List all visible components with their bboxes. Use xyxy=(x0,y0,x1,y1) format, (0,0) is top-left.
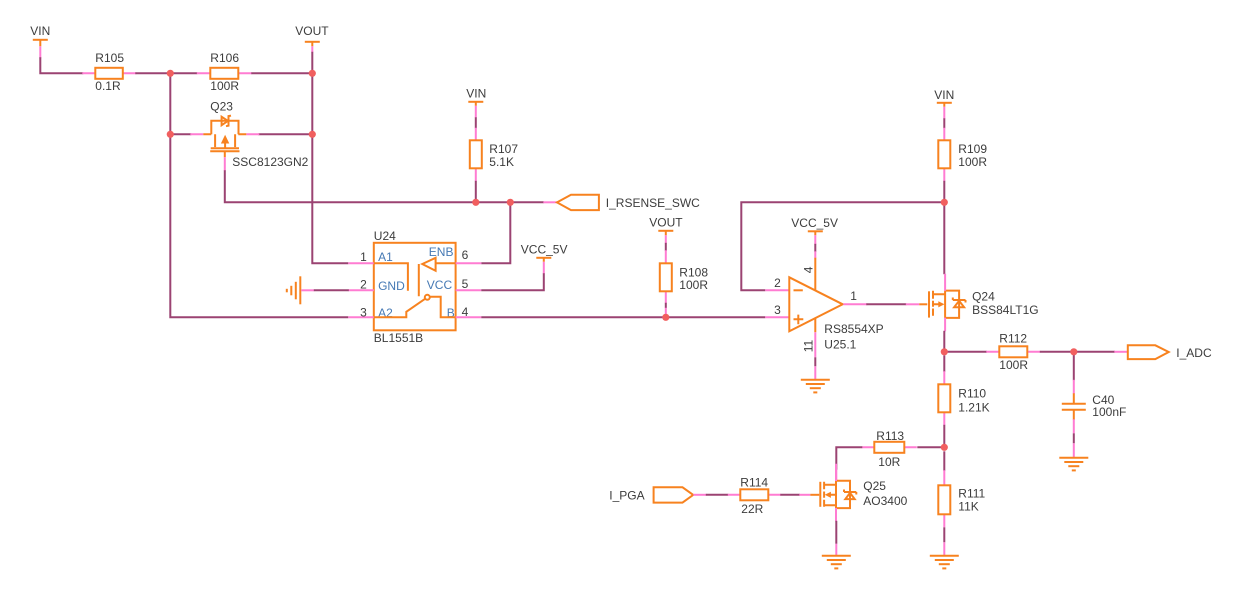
wire left column 170 down to U24 pin3 xyxy=(170,73,348,317)
svg-text:0.1R: 0.1R xyxy=(95,79,121,93)
wire op-amp output to Q24 gate xyxy=(866,303,919,305)
svg-text:GND: GND xyxy=(378,279,405,293)
power VCC_5V (op-amp) xyxy=(791,216,838,245)
ground (Q25) xyxy=(822,556,851,569)
resistor R105 xyxy=(82,51,136,93)
svg-text:11: 11 xyxy=(801,340,815,353)
svg-text:4: 4 xyxy=(801,266,815,273)
power VIN (R107) xyxy=(466,86,486,118)
U24 pin 5 VCC xyxy=(456,289,482,291)
svg-text:1: 1 xyxy=(360,250,367,264)
wire VIN to R105 xyxy=(40,57,83,73)
svg-text:VCC: VCC xyxy=(427,278,453,292)
resistor R112 xyxy=(986,331,1040,372)
wire op-amp pin11 to ground xyxy=(814,332,816,379)
wire R109 to junction xyxy=(943,181,945,203)
U24 pin 2 GND xyxy=(348,289,374,291)
wire to Q23 left xyxy=(170,133,191,135)
svg-text:11K: 11K xyxy=(958,499,978,513)
U24 internal switch blade xyxy=(374,299,425,317)
wire R111 to ground xyxy=(943,527,945,555)
wire VIN to R107 xyxy=(475,117,477,128)
svg-text:Q23: Q23 xyxy=(210,99,233,113)
svg-text:VCC_5V: VCC_5V xyxy=(521,242,568,256)
svg-text:Q24: Q24 xyxy=(972,289,995,303)
svg-text:VIN: VIN xyxy=(934,88,954,102)
junction node at 944,447 xyxy=(941,444,948,451)
junction node at 510,202 xyxy=(507,199,514,206)
wire ground to U24 pin2 xyxy=(314,289,349,291)
capacitor C40 xyxy=(1062,393,1127,420)
power VIN (top-left) xyxy=(30,24,50,59)
svg-text:A1: A1 xyxy=(378,250,393,264)
resistor R106 xyxy=(197,51,252,93)
svg-text:10R: 10R xyxy=(878,455,900,469)
wire R106 to VOUT column xyxy=(251,72,312,74)
svg-text:4: 4 xyxy=(462,305,469,319)
svg-text:100R: 100R xyxy=(999,358,1028,372)
junction node at 944,351.5 xyxy=(941,348,948,355)
svg-text:R105: R105 xyxy=(95,51,124,65)
resistor R111 xyxy=(938,470,985,527)
svg-text:VOUT: VOUT xyxy=(295,24,329,38)
svg-text:100R: 100R xyxy=(679,278,708,292)
U24 pin 6 ENB xyxy=(456,262,482,264)
U24 pin 1 A1 xyxy=(348,262,374,264)
power VOUT (R108) xyxy=(649,215,683,243)
resistor R110 xyxy=(938,371,989,425)
wire R113 to Q25 drain xyxy=(836,447,862,481)
svg-text:I_ADC: I_ADC xyxy=(1176,346,1212,360)
svg-text:VIN: VIN xyxy=(30,24,50,38)
svg-text:VIN: VIN xyxy=(466,86,486,100)
wire R105 to R106 xyxy=(135,72,197,74)
U24 pin 4 B xyxy=(456,316,482,318)
transistor Q23 xyxy=(190,99,308,171)
ground (R111) xyxy=(930,556,959,569)
wire Q25 source to ground xyxy=(835,521,837,556)
wire VOUT to R108 xyxy=(665,243,667,251)
wire R114 to Q25 gate xyxy=(780,494,810,496)
wire VIN to R109 xyxy=(943,118,945,128)
ground (op-amp pin11) xyxy=(801,380,830,393)
svg-text:SSC8123GN2: SSC8123GN2 xyxy=(232,155,308,169)
transistor Q24 xyxy=(919,274,1038,332)
svg-text:U24: U24 xyxy=(374,229,396,243)
wire Q24 source to junction xyxy=(943,331,945,352)
ground (U24 pin2, left-facing) xyxy=(287,276,315,304)
power VIN (R109) xyxy=(934,88,954,119)
svg-text:1: 1 xyxy=(850,289,857,303)
svg-text:R107: R107 xyxy=(489,142,518,156)
op-amp U25.1 xyxy=(765,258,883,353)
U24 internal ENB inverter xyxy=(419,258,456,297)
U24 internal switch A1 contact xyxy=(374,263,408,291)
svg-text:I_RSENSE_SWC: I_RSENSE_SWC xyxy=(606,196,700,210)
junction node at 170,73 xyxy=(167,70,174,77)
resistor R109 xyxy=(938,128,987,182)
power VOUT (top) xyxy=(295,24,329,53)
IC U24 xyxy=(348,229,481,345)
U24 pin 3 A2 xyxy=(348,316,374,318)
svg-text:R110: R110 xyxy=(958,386,986,400)
svg-text:3: 3 xyxy=(774,303,781,317)
junction node at 1073.5,351.5 xyxy=(1070,348,1077,355)
svg-text:3: 3 xyxy=(360,305,367,319)
resistor R114 xyxy=(728,475,781,516)
wire C40 to ground xyxy=(1073,419,1075,457)
svg-text:Q25: Q25 xyxy=(863,479,886,493)
svg-text:R106: R106 xyxy=(210,51,239,65)
net flag I_ADC xyxy=(1114,345,1212,360)
transistor Q25 xyxy=(810,464,907,522)
svg-text:ENB: ENB xyxy=(429,245,454,259)
junction node at 170,134 xyxy=(167,131,174,138)
power VCC_5V (U24) xyxy=(521,242,568,273)
resistor R107 xyxy=(470,128,519,182)
wire pin6 riser xyxy=(481,202,510,263)
svg-text:I_PGA: I_PGA xyxy=(609,488,644,502)
wire Q23 gate to I_RSENSE_SWC xyxy=(225,170,544,202)
svg-text:22R: 22R xyxy=(741,502,763,516)
wire Q23 right to VOUT column xyxy=(258,133,312,135)
wire R110 to junction xyxy=(943,425,945,448)
wire VCC_5V to U24 pin5 xyxy=(481,273,544,290)
svg-text:6: 6 xyxy=(462,248,469,262)
wire I_PGA to R114 xyxy=(706,494,729,496)
wire junction down to Q24 drain xyxy=(943,202,945,274)
svg-text:2: 2 xyxy=(360,277,367,291)
svg-text:R111: R111 xyxy=(958,486,985,500)
wire R107 to junction xyxy=(475,181,477,203)
svg-text:AO3400: AO3400 xyxy=(863,494,907,508)
wire U24 pin4 to op-amp xyxy=(481,316,765,318)
wire R108 to junction xyxy=(665,303,667,318)
svg-text:5: 5 xyxy=(462,277,469,291)
svg-text:R113: R113 xyxy=(876,429,904,443)
svg-text:VOUT: VOUT xyxy=(649,215,683,229)
net flag I_RSENSE_SWC xyxy=(543,195,700,210)
wire junction down to R111 xyxy=(943,451,945,471)
svg-text:100R: 100R xyxy=(958,155,987,169)
junction node at 312,73 xyxy=(309,70,316,77)
svg-text:100R: 100R xyxy=(210,79,239,93)
svg-text:5.1K: 5.1K xyxy=(489,155,514,169)
resistor R108 xyxy=(660,250,709,315)
svg-text:R109: R109 xyxy=(958,142,987,156)
wire VCC_5V to op-amp pin4 xyxy=(814,244,816,252)
wire junction down to C40 xyxy=(1073,352,1075,394)
wire junction down to R110 xyxy=(943,355,945,372)
wire feedback to op-amp pin2 xyxy=(741,202,944,290)
svg-text:R112: R112 xyxy=(999,331,1027,345)
wire junction to R112 xyxy=(944,351,987,353)
svg-text:RS8554XP: RS8554XP xyxy=(824,322,883,336)
svg-text:BSS84LT1G: BSS84LT1G xyxy=(972,303,1038,317)
svg-text:100nF: 100nF xyxy=(1092,405,1126,419)
net flag I_PGA xyxy=(609,487,706,502)
svg-text:R114: R114 xyxy=(740,475,768,489)
svg-text:2: 2 xyxy=(774,276,781,290)
ground (C40) xyxy=(1059,458,1088,471)
junction node at 944,202 xyxy=(941,199,948,206)
junction node at 475.5,202 xyxy=(472,199,479,206)
svg-text:VCC_5V: VCC_5V xyxy=(791,216,838,230)
junction node at 665.5,317 xyxy=(662,314,669,321)
wire VOUT column down to U24 pin1 xyxy=(312,52,348,263)
resistor R113 xyxy=(862,429,917,469)
svg-text:U25.1: U25.1 xyxy=(824,337,856,351)
svg-text:1.21K: 1.21K xyxy=(958,400,989,414)
wire R112 to I_ADC xyxy=(1040,351,1115,353)
junction node at 312,134 xyxy=(309,131,316,138)
wire junction to R113 xyxy=(917,446,944,448)
svg-text:BL1551B: BL1551B xyxy=(374,331,423,345)
